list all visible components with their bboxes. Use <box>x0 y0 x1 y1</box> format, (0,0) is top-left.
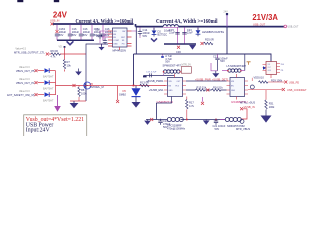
svg-text:+5USB_DET1: +5USB_DET1 <box>212 77 229 81</box>
svg-text:GND: GND <box>169 90 174 92</box>
svg-text:SMBJ: SMBJ <box>119 93 127 97</box>
svg-text:C21: C21 <box>213 54 218 58</box>
svg-text:R16 51k: R16 51k <box>213 85 223 89</box>
svg-text:OUT: OUT <box>268 67 271 69</box>
svg-text:USB_OUT: USB_OUT <box>288 27 299 29</box>
svg-text:Value=3.3: Value=3.3 <box>19 66 30 69</box>
svg-text:USB_IN: USB_IN <box>50 19 59 23</box>
svg-text:4.7k: 4.7k <box>51 55 57 59</box>
svg-text:10k: 10k <box>67 64 72 68</box>
svg-text:BAV70HT: BAV70HT <box>43 75 54 78</box>
svg-text:R29 100k: R29 100k <box>271 78 283 82</box>
svg-text:100k: 100k <box>81 92 87 96</box>
svg-text:R17: R17 <box>189 101 194 105</box>
svg-text:24V: 24V <box>53 10 68 19</box>
svg-text:+5USB_EN1: +5USB_EN1 <box>149 88 164 92</box>
svg-text:22uF: 22uF <box>169 31 175 35</box>
svg-text:VBUS_OUT_P5: VBUS_OUT_P5 <box>16 69 35 73</box>
svg-text:R26: R26 <box>96 34 101 38</box>
svg-text:VDD: VDD <box>254 76 260 80</box>
svg-text:USB_PD: USB_PD <box>289 80 300 84</box>
svg-text:BZT52C: BZT52C <box>158 33 168 37</box>
svg-text:EXT_SAFETY_ON(_M): EXT_SAFETY_ON(_M) <box>7 93 34 97</box>
svg-text:22uF: 22uF <box>187 31 193 35</box>
svg-text:R6 0R: R6 0R <box>51 49 58 53</box>
svg-text:50V: 50V <box>143 34 148 38</box>
svg-text:BAV70HT: BAV70HT <box>43 87 54 90</box>
svg-text:50V: 50V <box>215 127 220 131</box>
svg-text:21V/3A: 21V/3A <box>252 12 278 22</box>
svg-text:50V: 50V <box>72 33 77 37</box>
svg-text:R8: R8 <box>81 88 85 92</box>
svg-text:Value=0.5: Value=0.5 <box>15 47 26 50</box>
svg-text:50V: 50V <box>165 60 170 64</box>
svg-text:MTRL_+5US: MTRL_+5US <box>240 101 255 105</box>
svg-text:100k: 100k <box>269 105 275 109</box>
svg-text:C30: C30 <box>176 50 181 54</box>
svg-text:VUSB_IN: VUSB_IN <box>244 105 255 109</box>
svg-text:USB_OUT: USB_OUT <box>253 22 266 26</box>
svg-text:MTR_5V: MTR_5V <box>182 64 192 67</box>
svg-text:MTR_USB_OUTPUT_CTL: MTR_USB_OUTPUT_CTL <box>14 51 45 55</box>
svg-text:MTR_VBUS: MTR_VBUS <box>236 127 250 131</box>
svg-text:BAV70HT: BAV70HT <box>43 99 54 102</box>
svg-text:Current 4A, Width >=160mil: Current 4A, Width >=160mil <box>76 19 134 25</box>
svg-text:FLG: FLG <box>176 86 180 88</box>
svg-text:24V: 24V <box>224 10 229 13</box>
svg-text:Value=3.3: Value=3.3 <box>19 78 30 81</box>
svg-text:L5 NR6028T4R7: L5 NR6028T4R7 <box>227 64 247 68</box>
svg-text:G546B2T1U: G546B2T1U <box>157 100 174 104</box>
svg-text:USB_CONNDET: USB_CONNDET <box>287 88 307 92</box>
svg-text:GND: GND <box>113 44 118 46</box>
svg-text:R15 51k: R15 51k <box>197 85 207 89</box>
svg-text:4.7k: 4.7k <box>189 104 195 108</box>
svg-text:C28: C28 <box>95 28 100 32</box>
svg-text:SPM6530T-4R7: SPM6530T-4R7 <box>163 63 182 67</box>
svg-text:COMP: COMP <box>113 40 119 42</box>
svg-text:5V0: 5V0 <box>281 64 284 66</box>
svg-text:LESD8D5.0CAT5G: LESD8D5.0CAT5G <box>202 30 224 34</box>
svg-text:470u@100MHz: 470u@100MHz <box>167 126 186 130</box>
svg-text:D5: D5 <box>123 89 127 93</box>
svg-text:SW: SW <box>122 31 125 33</box>
svg-text:GND: GND <box>231 90 236 92</box>
svg-text:+5USB_PWR: +5USB_PWR <box>195 77 211 81</box>
svg-text:VBUS_OUT_P4: VBUS_OUT_P4 <box>16 81 35 85</box>
svg-text:R7: R7 <box>67 60 71 64</box>
svg-text:C1T 4.7uF: C1T 4.7uF <box>146 72 157 74</box>
svg-text:VD: VD <box>59 46 63 49</box>
svg-text:U10: U10 <box>259 76 264 80</box>
svg-text:R25 0R: R25 0R <box>205 38 214 42</box>
svg-text:+5USB_PWR1: +5USB_PWR1 <box>146 79 164 83</box>
svg-text:50V: 50V <box>59 33 64 37</box>
svg-text:Value=3.3: Value=3.3 <box>19 90 30 93</box>
svg-text:50V: 50V <box>220 59 225 63</box>
svg-text:Input:24V: Input:24V <box>26 127 51 133</box>
